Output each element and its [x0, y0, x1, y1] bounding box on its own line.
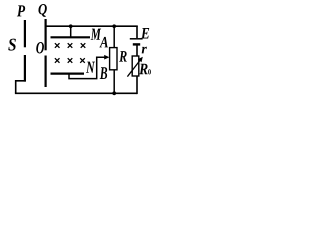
- junction dot bottom of R branch: [112, 91, 116, 95]
- wire battery to R0: [136, 44, 138, 56]
- label E: [141, 28, 149, 38]
- label N: [86, 62, 95, 73]
- plate N: [51, 72, 85, 74]
- plate Q lower segment (gap = hole O): [44, 56, 46, 88]
- plate P upper segment: [24, 20, 26, 47]
- plate P lower segment (gap = slit S): [24, 55, 26, 82]
- top wire: [45, 25, 138, 27]
- battery E long plate: [130, 38, 143, 40]
- field-into-page symbol x row2 col3: [80, 58, 85, 63]
- field-into-page symbol x row1 col2: [68, 43, 73, 48]
- field-into-page symbol x row2 col2: [68, 58, 73, 63]
- wire from top wire down to R: [113, 26, 115, 47]
- slider arrowhead at R: [104, 55, 109, 60]
- label r: [142, 47, 147, 54]
- plate M: [51, 36, 91, 38]
- R0 diagonal arrow shaft: [127, 60, 140, 76]
- wire jog bottom-left: [16, 81, 26, 94]
- plate Q upper segment: [44, 19, 46, 50]
- label A: [99, 37, 108, 48]
- circuit schematic: electron gun P/Q, deflection plates M/N in field B, supply E-r with R potentiometer and rheostat R0: [0, 0, 154, 100]
- wire stub down to plate M: [70, 26, 72, 37]
- label O: [36, 42, 44, 53]
- top-right corner wire down to battery: [136, 26, 138, 38]
- label B: [100, 67, 107, 79]
- label S: [8, 39, 16, 51]
- junction dot top of R branch: [112, 24, 116, 28]
- battery E short thick plate: [133, 43, 140, 45]
- field-into-page symbol x row1 col3: [81, 43, 86, 48]
- wire below R: [113, 70, 115, 94]
- R0 arrowhead: [138, 57, 143, 62]
- label R: [119, 51, 127, 61]
- wire below R0 to bottom wire: [136, 76, 138, 94]
- junction dot at plate M stub: [69, 24, 73, 28]
- wire from plate N to slider of R: [69, 57, 105, 78]
- rheostat R0 box: [132, 56, 139, 76]
- label R0 R: [139, 64, 148, 74]
- field-into-page symbol x row1 col1: [55, 43, 60, 48]
- label P: [17, 5, 25, 16]
- label Q: [38, 4, 46, 17]
- resistor R box: [110, 48, 117, 70]
- bottom wire: [15, 92, 137, 94]
- label M: [91, 29, 101, 40]
- field-into-page symbol x row2 col1: [55, 58, 60, 63]
- label R0 subscript 0: [148, 69, 151, 74]
